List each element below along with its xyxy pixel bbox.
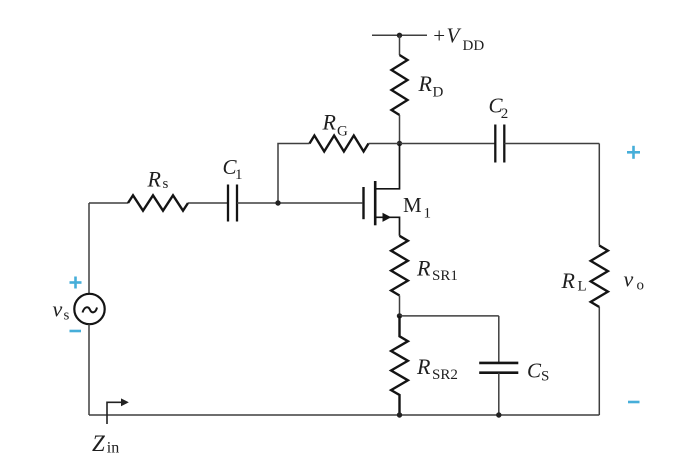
svg-text:SR1: SR1	[432, 268, 458, 284]
label RL	[561, 268, 587, 295]
svg-text:s: s	[64, 308, 70, 324]
svg-text:G: G	[337, 124, 348, 140]
svg-text:v: v	[53, 297, 63, 322]
wire gate row left	[89, 202, 128, 204]
label + source (cyan)	[70, 277, 82, 289]
wire RG left lead and corner	[278, 144, 310, 204]
label RSR1	[416, 256, 458, 285]
svg-text:R: R	[416, 354, 431, 379]
capacitor C2	[495, 125, 504, 163]
svg-text:R: R	[418, 71, 433, 96]
label + output (cyan)	[627, 146, 640, 159]
node gate junction dot	[275, 200, 280, 205]
resistor RL	[591, 246, 608, 308]
resistor RD	[392, 55, 408, 115]
label - source (cyan)	[70, 330, 82, 333]
svg-text:DD: DD	[463, 38, 485, 54]
wire Rs to C1	[188, 202, 228, 204]
label C1	[223, 155, 243, 183]
label C2	[489, 94, 509, 123]
svg-text:v: v	[624, 267, 634, 292]
wire CS bottom lead	[498, 373, 500, 415]
wire right rail top	[598, 144, 600, 246]
wire CS top lead	[498, 316, 500, 362]
svg-text:R: R	[322, 110, 337, 135]
wire source vs to gate row	[88, 203, 90, 294]
svg-text:1: 1	[424, 206, 432, 222]
label +VDD	[433, 24, 484, 55]
svg-text:C: C	[527, 359, 542, 383]
label Zin	[92, 431, 119, 457]
svg-text:SR2: SR2	[432, 367, 458, 383]
svg-text:M: M	[403, 193, 422, 217]
svg-text:s: s	[163, 176, 169, 192]
wire bottom rail	[89, 414, 599, 416]
svg-text:R: R	[561, 268, 576, 293]
label vo	[624, 267, 645, 294]
label M1	[403, 193, 431, 222]
Zin arrow	[107, 402, 121, 424]
node CS bottom dot	[496, 412, 501, 417]
svg-text:R: R	[147, 167, 162, 192]
wire RG to drain node to C2	[369, 143, 496, 145]
svg-text:S: S	[541, 369, 549, 385]
transistor M1 arrow	[383, 213, 392, 222]
resistor Rs	[128, 195, 188, 210]
wire RSR1 to source node	[399, 296, 401, 316]
svg-text:o: o	[637, 278, 645, 294]
label RD	[418, 71, 444, 101]
label RSR2	[416, 354, 458, 383]
svg-text:+: +	[433, 24, 445, 48]
label Rs	[147, 167, 169, 193]
label - output (cyan)	[628, 401, 640, 404]
node RSR2 bottom dot	[397, 412, 402, 417]
wire C1 to gate	[237, 202, 362, 204]
wire VDD supply bar	[372, 34, 427, 36]
node VDD junction dot	[397, 33, 402, 38]
svg-text:2: 2	[501, 106, 509, 122]
svg-text:V: V	[447, 24, 462, 48]
label CS	[527, 359, 549, 385]
wire node to CS branch	[400, 315, 499, 317]
capacitor CS	[479, 363, 518, 373]
svg-text:L: L	[578, 279, 587, 295]
resistor RSR2	[391, 316, 408, 415]
resistor RG	[310, 136, 369, 152]
wire RD to drain node	[399, 115, 401, 144]
svg-text:D: D	[433, 85, 444, 101]
svg-text:R: R	[416, 256, 431, 281]
label vs	[53, 297, 70, 324]
node source-divider junction dot	[397, 313, 402, 318]
label RG	[322, 110, 349, 140]
svg-text:in: in	[107, 440, 119, 457]
transistor M1	[364, 144, 400, 236]
capacitor C1	[228, 185, 237, 222]
source vs circle	[74, 294, 104, 324]
wire right rail bottom	[598, 307, 600, 415]
resistor RSR1	[391, 236, 408, 296]
wire VDD bar to RD	[399, 35, 401, 55]
svg-text:1: 1	[235, 167, 243, 183]
source vs tilde	[83, 307, 98, 312]
svg-text:Z: Z	[92, 431, 105, 456]
wire vs to bottom rail	[88, 324, 90, 415]
node drain junction dot	[397, 141, 402, 146]
wire C2 to right rail	[504, 143, 599, 145]
